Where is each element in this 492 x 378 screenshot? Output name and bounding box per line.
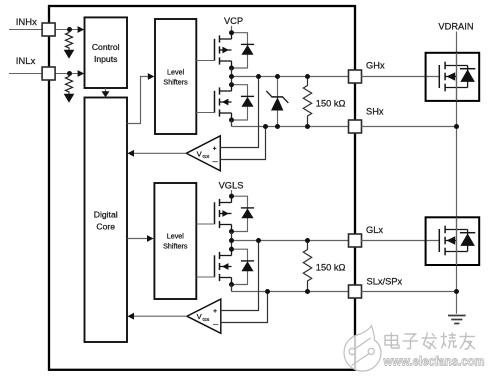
wire GLx net — [232, 240, 350, 242]
svg-text:VGLS: VGLS — [219, 180, 244, 190]
external MOSFET box M2 — [426, 217, 480, 265]
svg-text:+: + — [213, 145, 217, 152]
node resistor R1 top — [305, 74, 310, 79]
watermark elecfans logo — [344, 326, 381, 372]
svg-text:150 kΩ: 150 kΩ — [316, 98, 346, 108]
external MOSFET box M1 — [426, 53, 480, 101]
wire Control Inputs to Digital Core — [102, 88, 110, 97]
wire GHx to external gate — [361, 76, 439, 78]
ground symbol — [448, 316, 466, 324]
node SLx ground junction — [454, 289, 459, 294]
block Digital Core — [85, 98, 128, 343]
wire VDRAIN through M1 — [456, 53, 458, 101]
transistor Q1 high-side source FET — [215, 30, 255, 70]
node resistor R1 bottom — [305, 124, 310, 129]
wire INLx input — [9, 73, 42, 75]
pin INLx — [42, 67, 55, 80]
svg-text:Digital: Digital — [94, 210, 118, 220]
svg-text:SLx/SPx: SLx/SPx — [367, 276, 403, 286]
wire INHx to Control Inputs — [55, 26, 84, 33]
svg-text:+: + — [213, 308, 217, 315]
wire GHx net — [232, 76, 350, 78]
wire VDRAIN rail — [456, 32, 458, 314]
wire INHx input — [9, 29, 42, 31]
node GHx sense junction — [256, 74, 261, 79]
svg-text:GS: GS — [202, 317, 209, 323]
node resistor R2 bottom — [305, 289, 310, 294]
svg-text:Level: Level — [167, 232, 185, 241]
node SLx sense junction — [265, 289, 270, 294]
resistor R1 150k — [303, 77, 311, 127]
wire Q3 source to Q4 drain — [231, 232, 233, 250]
node GLx column junction — [229, 238, 234, 243]
wire gate Q1 from Level Shifters — [196, 60, 214, 62]
wire U2 minus input from SLx — [221, 292, 268, 323]
wire SLx net — [232, 291, 350, 293]
comparator U2 VGS — [187, 299, 221, 333]
transistor Q4 low-side sink FET — [215, 247, 255, 287]
node INLx junction — [67, 71, 72, 76]
wire SHx net — [232, 126, 350, 128]
pin GHx — [349, 70, 362, 83]
zener diode D1 — [266, 77, 288, 127]
wire gate Q2 from Level Shifters — [196, 112, 214, 114]
svg-text:Inputs: Inputs — [94, 54, 117, 64]
svg-text:VCP: VCP — [224, 16, 243, 26]
svg-text:GHx: GHx — [366, 61, 385, 71]
watermark chinese characters — [385, 333, 475, 350]
transistor M1 external high-side — [439, 62, 475, 92]
node GLx sense junction — [256, 238, 261, 243]
svg-text:VDRAIN: VDRAIN — [438, 21, 473, 31]
svg-text:Control: Control — [92, 42, 120, 52]
wire U1 plus input from GHx — [220, 77, 258, 148]
device outline box — [49, 6, 355, 370]
svg-text:www.elecfans.com: www.elecfans.com — [383, 355, 485, 369]
pin SHx — [349, 120, 362, 133]
comparator U1 VGS — [186, 136, 220, 171]
svg-text:Shifters: Shifters — [163, 242, 188, 251]
block Level Shifters high side — [155, 19, 196, 134]
node INHx junction — [67, 27, 72, 32]
svg-text:150 kΩ: 150 kΩ — [316, 262, 346, 272]
wire Q4 source to SLx — [231, 285, 233, 292]
wire U2 plus input from GLx — [221, 241, 259, 311]
transistor Q3 low-side source FET — [215, 194, 255, 234]
svg-text:Level: Level — [167, 68, 185, 77]
pulldown resistor INHx — [64, 30, 75, 59]
wire gate Q3 from Level Shifters — [196, 223, 214, 225]
block Level Shifters low side — [154, 183, 196, 299]
svg-text:GLx: GLx — [366, 225, 383, 235]
wire VCP to FET1 drain — [231, 26, 233, 33]
svg-text:INLx: INLx — [16, 56, 36, 67]
wire VGLS to FET3 drain — [231, 190, 233, 196]
wire SHx to switch node — [361, 126, 456, 128]
wire SLx to ground node — [361, 291, 456, 293]
wire U1 minus input from SHx — [220, 127, 265, 160]
wire U1 output to Digital Core — [127, 150, 186, 157]
block Control Inputs — [85, 17, 128, 88]
wire Q2 source to SHx — [231, 120, 233, 127]
wire Q1 source to Q2 drain — [231, 68, 233, 85]
pin GLx — [349, 234, 362, 247]
svg-text:GS: GS — [202, 154, 209, 160]
pin SLx/SPx — [349, 285, 362, 298]
wire rail through M2 — [456, 217, 458, 265]
node resistor R2 top — [305, 238, 310, 243]
pulldown resistor INLx — [64, 74, 75, 103]
node switch SHx junction — [454, 124, 459, 129]
svg-text:Core: Core — [96, 222, 115, 232]
pin INHx — [42, 23, 55, 36]
svg-text:INHx: INHx — [16, 17, 37, 28]
node GHx column junction — [229, 74, 234, 79]
node SHx sense junction — [263, 124, 268, 129]
wire Digital Core to Level Shifters 2 — [127, 235, 153, 242]
node zener D1 top — [275, 74, 280, 79]
resistor R2 150k — [303, 241, 311, 292]
wire INLx to Control Inputs — [55, 70, 84, 77]
wire GLx to external gate — [361, 240, 439, 242]
transistor Q2 high-side sink FET — [215, 82, 255, 122]
svg-text:SHx: SHx — [366, 107, 384, 117]
wire gate Q4 from Level Shifters — [196, 276, 214, 278]
node zener D1 bottom — [275, 124, 280, 129]
transistor M2 external low-side — [439, 226, 475, 256]
wire Digital Core to Level Shifters 1 — [127, 73, 154, 123]
wire U2 output to Digital Core — [127, 313, 186, 320]
svg-text:Shifters: Shifters — [163, 78, 188, 87]
